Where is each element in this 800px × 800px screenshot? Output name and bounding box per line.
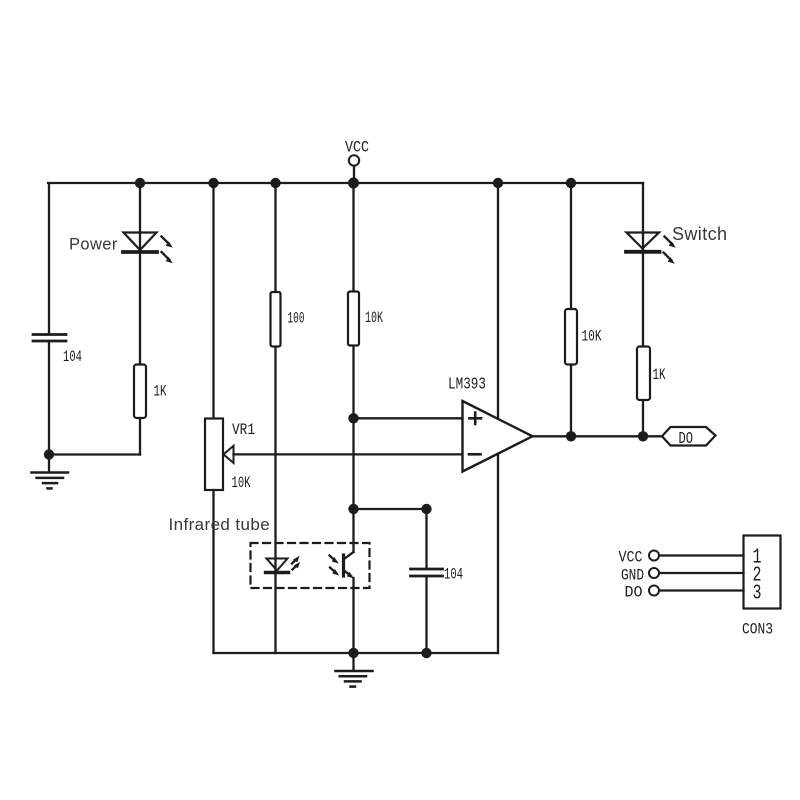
ground (left) — [32, 455, 69, 489]
svg-text:CON3: CON3 — [742, 621, 773, 639]
wire: left branch vertical lower (C1 to ground node) — [48, 341, 50, 455]
capacitor C1 104 — [33, 335, 66, 342]
phototransistor Q1 — [330, 552, 354, 578]
node: junction at non-inverting input — [348, 413, 358, 423]
potentiometer VR1 body — [205, 419, 223, 491]
svg-text:3: 3 — [753, 583, 762, 606]
svg-text:1K: 1K — [154, 383, 167, 401]
wire: GND pin to CON3 — [660, 572, 744, 574]
node: top rail dot at R2 branch — [270, 178, 280, 188]
pin terminal VCC — [649, 551, 659, 561]
node: junction at C2 top — [421, 504, 431, 514]
VCC terminal — [349, 155, 359, 183]
node: junction output / R5 — [638, 431, 648, 441]
LED D1 Power — [123, 233, 173, 264]
wire: DO pin to CON3 — [660, 589, 744, 591]
optocoupler dashed enclosure — [251, 543, 370, 588]
svg-text:10K: 10K — [365, 309, 383, 327]
resistor R5 1K — [637, 347, 650, 401]
ground (middle) — [336, 653, 373, 687]
resistor R2 100 — [271, 292, 281, 347]
svg-text:Power: Power — [69, 236, 118, 254]
svg-text:10K: 10K — [232, 474, 251, 492]
svg-text:Infrared tube: Infrared tube — [169, 515, 271, 534]
potentiometer VR1 wiper arrow — [224, 446, 234, 463]
LED D2 Switch — [626, 233, 676, 264]
wire: link to filter cap C2 — [354, 508, 427, 510]
wire: R3 branch vertical (rail to phototransistor collector) — [352, 183, 354, 552]
svg-text:VCC: VCC — [619, 549, 643, 567]
connector CON3 body — [744, 536, 781, 609]
wire: non-inverting input — [354, 417, 463, 419]
node: top rail dot at R4 branch — [566, 178, 576, 188]
node: top rail dot at power branch — [135, 178, 145, 188]
svg-text:1K: 1K — [653, 366, 666, 384]
resistor R3 10K — [348, 292, 359, 346]
wire: R2 branch vertical (rail to bottom rail) — [274, 183, 276, 653]
wire: VCC pin to CON3 — [660, 554, 744, 556]
wire: VR1 bottom to bottom rail — [212, 490, 214, 653]
wire: top VCC rail — [48, 182, 643, 184]
svg-text:DO: DO — [679, 430, 694, 449]
pin terminal DO — [649, 586, 659, 596]
wire: ground link horizontal — [49, 453, 140, 455]
svg-text:GND: GND — [621, 567, 644, 585]
wire: R1 bottom to ground link — [139, 418, 141, 455]
node: junction at collector — [348, 504, 358, 514]
svg-text:Switch: Switch — [672, 224, 727, 244]
wire: bottom ground rail — [214, 652, 499, 654]
wire: R4 branch (rail to output node) — [570, 183, 572, 436]
resistor R1 1K — [134, 365, 146, 419]
wire: comparator supply line — [497, 183, 499, 653]
IR LED D3 — [266, 556, 301, 573]
node: left ground junction — [44, 449, 54, 459]
op-amp U1 LM393 — [463, 401, 533, 472]
node: junction at middle ground — [348, 648, 358, 658]
svg-text:VCC: VCC — [345, 139, 369, 157]
node: top rail dot at supply line — [493, 178, 503, 188]
pin terminal GND — [649, 568, 659, 578]
wire: wiper to comparator inverting input — [234, 453, 463, 455]
node: junction output / R4 — [566, 431, 576, 441]
capacitor C2 104 — [411, 509, 443, 653]
svg-text:DO: DO — [625, 584, 643, 602]
wire: switch LED branch (rail corner down to output node) — [642, 183, 644, 436]
svg-text:104: 104 — [444, 566, 463, 584]
wire: left branch vertical upper (rail to C1) — [48, 183, 50, 334]
wire: power LED branch (rail to R1 top) — [139, 183, 141, 365]
svg-text:104: 104 — [63, 348, 82, 366]
node: top rail dot at VCC — [348, 178, 359, 189]
wire: emitter to bottom rail — [352, 578, 354, 653]
svg-text:100: 100 — [288, 310, 305, 328]
wire: VR1 branch (rail to VR1 top) — [212, 183, 214, 419]
node: junction at C2 bottom on rail — [421, 648, 431, 658]
resistor R4 10K — [565, 309, 577, 365]
wire: comparator output — [533, 435, 663, 437]
svg-text:LM393: LM393 — [448, 376, 486, 395]
port tag DO — [662, 427, 716, 446]
svg-text:10K: 10K — [582, 328, 602, 346]
node: top rail dot at VR1 branch — [208, 178, 218, 188]
svg-text:VR1: VR1 — [232, 421, 255, 439]
